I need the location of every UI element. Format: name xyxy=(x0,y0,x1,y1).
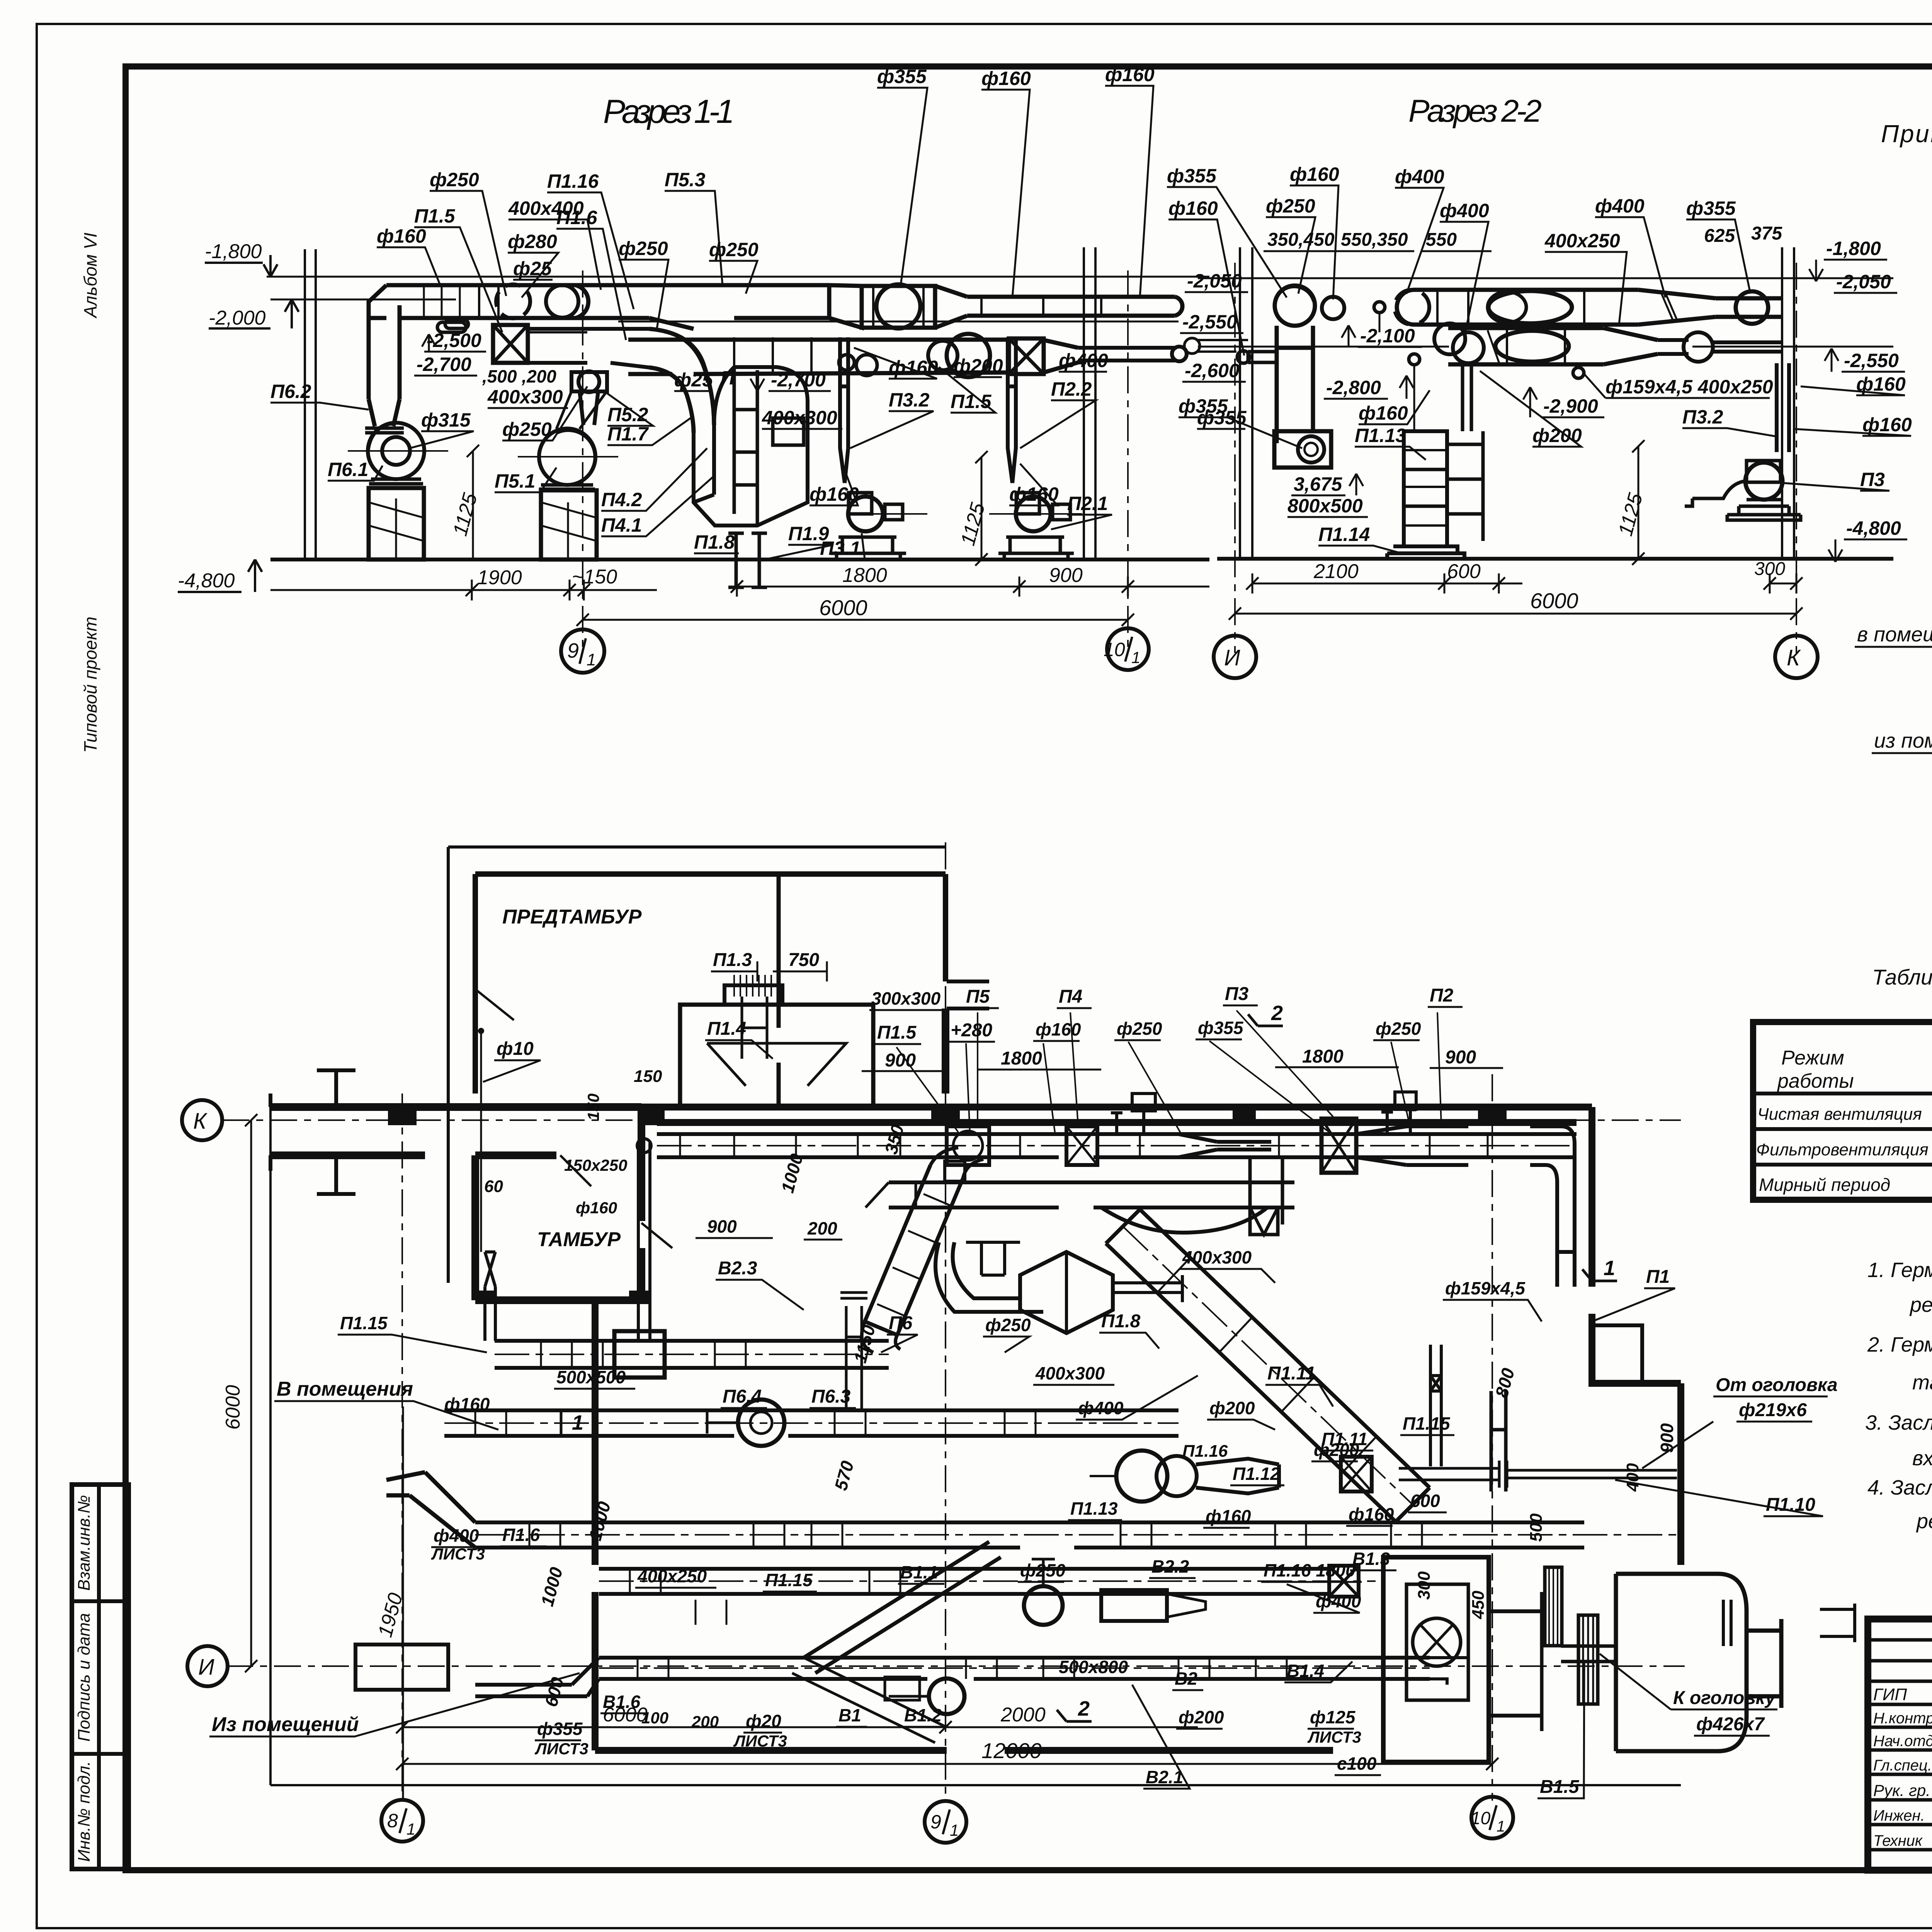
right box inner hatch xyxy=(1413,1618,1461,1666)
damper X-box 2 xyxy=(1009,338,1044,374)
svg-text:ф200: ф200 xyxy=(1209,1398,1255,1418)
svg-text:400x300: 400x300 xyxy=(762,407,837,429)
damper X-box xyxy=(493,325,528,363)
svg-text:В2.3: В2.3 xyxy=(718,1258,757,1279)
svg-text:К оголовку: К оголовку xyxy=(1673,1688,1776,1708)
label f400 t3 xyxy=(1595,195,1665,298)
svg-text:3,675: 3,675 xyxy=(1294,473,1342,495)
svg-text:ф250: ф250 xyxy=(1020,1560,1066,1580)
svg-text:П6.2: П6.2 xyxy=(270,381,311,402)
svg-text:регулировки объема подаваемого: регулировки объема подаваемого воздуха xyxy=(1916,1510,1932,1533)
svg-text:ЛИСТ3: ЛИСТ3 xyxy=(534,1740,588,1758)
svg-text:Н.контр.: Н.контр. xyxy=(1873,1710,1932,1727)
svg-text:-2,550: -2,550 xyxy=(1844,350,1899,371)
svg-text:150: 150 xyxy=(584,1094,602,1121)
vertical link run1-run2 xyxy=(1250,1157,1282,1225)
svg-text:Взам.инв.№: Взам.инв.№ xyxy=(75,1495,94,1591)
svg-text:Инв.№ подл.: Инв.№ подл. xyxy=(75,1761,94,1862)
svg-text:600: 600 xyxy=(1447,560,1481,583)
svg-text:П1.16 1800: П1.16 1800 xyxy=(1264,1560,1355,1580)
svg-text:П6.4: П6.4 xyxy=(723,1386,762,1407)
fan P2.1 unit xyxy=(998,493,1074,560)
svg-text:В2.2: В2.2 xyxy=(1151,1556,1189,1577)
label f159x45 xyxy=(1443,1278,1542,1321)
axis line 10/1 xyxy=(1492,1074,1493,1801)
label P1.10 r xyxy=(1615,1480,1823,1516)
svg-text:И: И xyxy=(198,1655,214,1680)
level line -2,000 xyxy=(270,299,456,301)
svg-text:П5.1: П5.1 xyxy=(495,470,535,492)
run 5 long xyxy=(475,1522,1584,1548)
row1 cone right xyxy=(1638,290,1716,325)
label P1.6 xyxy=(556,207,626,340)
svg-text:ф10: ф10 xyxy=(497,1039,534,1059)
svg-text:ф355: ф355 xyxy=(1686,197,1736,219)
svg-text:6000: 6000 xyxy=(819,595,867,620)
diagonal B1.1 lower xyxy=(792,1658,947,1743)
building outer face bottom xyxy=(270,1784,1681,1786)
label 400x300 right xyxy=(762,407,842,429)
label P6.1 xyxy=(328,459,383,481)
wall pilasters xyxy=(388,1105,1507,1302)
svg-text:П2.2: П2.2 xyxy=(1051,378,1092,400)
label 900 200 xyxy=(707,1216,837,1238)
svg-text:,500 ,200: ,500 ,200 xyxy=(482,366,556,386)
svg-text:Типовой проект: Типовой проект xyxy=(80,617,100,753)
svg-text:В помещения: В помещения xyxy=(277,1378,413,1400)
svg-text:ф355: ф355 xyxy=(1167,165,1217,187)
label f355 bl xyxy=(1179,395,1302,448)
svg-text:В1.5: В1.5 xyxy=(1540,1777,1580,1797)
label B1.1 xyxy=(898,1562,944,1584)
signature rows xyxy=(1868,1640,1932,1850)
P1.15 vertical with X xyxy=(1430,1345,1441,1466)
svg-text:ф400: ф400 xyxy=(1059,350,1108,371)
svg-text:1800: 1800 xyxy=(1302,1046,1344,1067)
label -2,700 xyxy=(414,354,477,376)
svg-text:1: 1 xyxy=(406,1820,415,1838)
label f400 r xyxy=(1059,350,1108,372)
svg-text:400x250: 400x250 xyxy=(637,1566,707,1586)
right big circle xyxy=(1736,291,1768,324)
level -2,100 xyxy=(1342,325,1422,347)
dim 550,350 xyxy=(1341,230,1414,251)
P1.4 box xyxy=(680,1005,873,1107)
small valve circle xyxy=(1374,302,1385,313)
svg-text:ф200: ф200 xyxy=(1314,1440,1359,1460)
predtambur inner door arcs xyxy=(475,989,672,1248)
label P6.3 xyxy=(810,1386,856,1408)
filter P1.13 xyxy=(1404,431,1447,546)
label f159x4,5 400x250 xyxy=(1584,374,1773,398)
labels top row xyxy=(871,984,1454,1009)
label f355 tl xyxy=(1167,165,1287,298)
svg-text:П1.4: П1.4 xyxy=(707,1019,746,1039)
row2 ellipse xyxy=(1495,331,1569,362)
row1 left cap xyxy=(1397,290,1414,325)
label P3 r xyxy=(1783,469,1889,491)
svg-text:-2,050: -2,050 xyxy=(1187,270,1242,292)
svg-text:ф250: ф250 xyxy=(502,418,552,440)
dim line 1900/150 xyxy=(270,580,657,600)
grille symbol xyxy=(1545,1567,1562,1646)
row1 ellipse xyxy=(1488,291,1572,323)
label P6 xyxy=(881,1313,918,1352)
axis circle 10/1 xyxy=(1104,628,1149,670)
svg-text:900: 900 xyxy=(707,1216,737,1236)
label P1.16 1800 xyxy=(1261,1560,1362,1582)
dim 1950 vertical xyxy=(402,1406,404,1801)
label -2,500 xyxy=(422,330,486,352)
svg-text:В1.3: В1.3 xyxy=(1352,1549,1390,1569)
svg-text:П1.14: П1.14 xyxy=(1318,524,1370,545)
building outer face left xyxy=(269,1107,272,1785)
thick duct elbow bottom right xyxy=(1430,1658,1468,1685)
label f160 r2 xyxy=(1793,414,1912,436)
dim line 6000 xyxy=(577,614,1134,626)
label f355 list3 xyxy=(534,1719,588,1758)
lower duct fan xyxy=(947,334,990,377)
P1.3 grille xyxy=(724,975,782,1059)
small inlet left xyxy=(1248,352,1277,362)
level -2,550 r xyxy=(1825,349,1905,372)
label f25 xyxy=(513,258,553,280)
level -2,550 l xyxy=(1180,311,1243,333)
svg-text:1: 1 xyxy=(1497,1818,1505,1835)
label P2.2 xyxy=(1020,378,1096,448)
duct P6 top run xyxy=(369,285,576,318)
axis circle 9/1 xyxy=(925,1801,966,1843)
svg-text:П5.3: П5.3 xyxy=(665,169,706,190)
label P1.7 xyxy=(607,417,692,445)
fan P5.1 volute xyxy=(539,429,595,485)
predtambur door top xyxy=(779,873,823,875)
hall top wall xyxy=(641,1107,1592,1122)
filter side stripes xyxy=(1404,450,1447,526)
svg-text:ф25: ф25 xyxy=(513,258,552,279)
axis circle 9/1 xyxy=(561,629,604,673)
label f250 b xyxy=(619,238,668,328)
svg-text:П6.1: П6.1 xyxy=(328,459,368,480)
label f20 list3 xyxy=(733,1711,787,1750)
label f250 xyxy=(430,169,506,296)
inner wall verticals xyxy=(777,874,781,1107)
svg-text:Инжен.: Инжен. xyxy=(1873,1807,1925,1824)
P6 stem xyxy=(840,1293,867,1410)
svg-text:ф250: ф250 xyxy=(430,169,479,190)
base P1.14 xyxy=(1387,546,1464,559)
label P6.4 xyxy=(721,1386,767,1408)
vertical feed to filter xyxy=(1463,364,1471,431)
svg-text:400x300: 400x300 xyxy=(487,386,563,408)
svg-text:Принципиальная схема работы: Принципиальная схема работы вентиляции у… xyxy=(1881,120,1932,148)
X damper B1.3 xyxy=(1329,1566,1359,1597)
fan f280 dashed xyxy=(496,284,530,318)
label f160 e xyxy=(1203,1506,1251,1528)
svg-text:900: 900 xyxy=(1445,1047,1476,1068)
predtambur walls xyxy=(475,874,946,1094)
svg-text:Нач.отд.: Нач.отд. xyxy=(1873,1733,1932,1750)
tambur walls xyxy=(475,1107,649,1300)
svg-text:400: 400 xyxy=(1623,1463,1642,1492)
svg-text:100: 100 xyxy=(641,1709,668,1727)
svg-text:ф400: ф400 xyxy=(1395,166,1444,187)
flag -2800 circle xyxy=(1409,354,1420,365)
svg-text:ф355: ф355 xyxy=(877,66,927,87)
svg-text:3. Заслонка N 13 прикрываетс: 3. Заслонка N 13 прикрывается при вентил… xyxy=(1865,1411,1932,1434)
label f250 t xyxy=(1266,195,1315,294)
cone 2 xyxy=(1044,340,1078,372)
extra seams row1 xyxy=(1437,290,1584,325)
fan f400 xyxy=(876,284,920,328)
label f160 m1 xyxy=(810,464,859,505)
extra seams lower duct xyxy=(734,337,811,372)
P1.8 unit plan xyxy=(935,1242,1182,1333)
svg-text:ф160: ф160 xyxy=(1009,483,1059,505)
text v pomeshenia xyxy=(1855,562,1932,647)
svg-text:ф160: ф160 xyxy=(1036,1019,1081,1039)
svg-text:П3.2: П3.2 xyxy=(889,389,930,411)
label B1.3 xyxy=(1350,1549,1396,1570)
level mark -4,800 xyxy=(178,560,262,592)
dim 1125 xyxy=(1632,440,1645,565)
svg-text:ф400: ф400 xyxy=(1595,195,1645,217)
label f400 list3 xyxy=(431,1526,485,1563)
svg-text:П4.1: П4.1 xyxy=(601,514,642,536)
svg-text:П6: П6 xyxy=(889,1313,913,1333)
floor line xyxy=(270,558,1209,561)
svg-text:375: 375 xyxy=(1751,223,1782,244)
big pipe right xyxy=(1616,1574,1781,1751)
label P1.16 xyxy=(1182,1442,1228,1461)
P5.2 fan box xyxy=(571,371,607,425)
svg-text:200: 200 xyxy=(807,1218,837,1238)
svg-text:П1.7: П1.7 xyxy=(607,423,649,445)
level -1,800 r xyxy=(1809,238,1887,281)
svg-text:ф200: ф200 xyxy=(954,355,1003,377)
label ot ogolovka plan xyxy=(1642,1375,1838,1468)
fan P5.2 cone xyxy=(556,391,607,429)
small details top right corner of hall xyxy=(1592,1325,1642,1383)
svg-text:-2,050: -2,050 xyxy=(1836,271,1891,293)
big X unit xyxy=(1321,1119,1356,1173)
level line top xyxy=(1198,277,1893,279)
svg-text:Подпись и дата: Подпись и дата xyxy=(75,1613,94,1742)
svg-text:П2.1: П2.1 xyxy=(1067,493,1108,514)
label P1.5 r xyxy=(939,367,995,413)
corridor stub marks xyxy=(317,1070,355,1194)
label 500x800 xyxy=(1056,1657,1138,1679)
fan P3 unit xyxy=(1685,461,1801,520)
svg-text:ф250: ф250 xyxy=(1117,1019,1162,1039)
label 600 r xyxy=(1408,1491,1447,1512)
axis line K xyxy=(1796,263,1797,653)
pedestal P6.1 xyxy=(369,488,424,560)
wall K xyxy=(1782,247,1794,559)
svg-text:625: 625 xyxy=(1704,226,1735,246)
hall right walls xyxy=(1592,1107,1681,1565)
dim 550 xyxy=(1422,230,1492,251)
level line -1,800 xyxy=(267,276,1209,278)
label P1.13 xyxy=(1355,425,1426,460)
run 7 bottom xyxy=(599,1658,1430,1679)
svg-text:ф400: ф400 xyxy=(434,1526,479,1546)
label f400 t xyxy=(1395,166,1444,294)
svg-text:ф160: ф160 xyxy=(377,225,426,247)
svg-text:400x250: 400x250 xyxy=(1544,230,1620,252)
label B1 xyxy=(836,1705,867,1727)
label f160 top3 xyxy=(1105,64,1155,298)
svg-text:Режим: Режим xyxy=(1781,1047,1844,1069)
fan B1.2 area xyxy=(885,1677,964,1714)
left small dims xyxy=(564,1094,628,1217)
left inlet small pipe xyxy=(1198,340,1248,352)
svg-text:8: 8 xyxy=(387,1810,398,1832)
label f160 m xyxy=(1359,390,1430,424)
V damper on run2 xyxy=(1250,1207,1278,1235)
damper circle f160 xyxy=(1322,297,1344,319)
svg-text:ф355: ф355 xyxy=(1179,395,1228,417)
thin tube xyxy=(1078,348,1177,361)
svg-text:10: 10 xyxy=(1104,639,1125,660)
label P1.16 xyxy=(547,170,634,309)
svg-text:300: 300 xyxy=(1415,1571,1434,1600)
left elbow of run5 xyxy=(386,1472,475,1548)
label f160 m2 xyxy=(1009,464,1059,505)
tambur door gap swing xyxy=(560,1155,591,1186)
svg-text:ф160: ф160 xyxy=(1359,402,1408,424)
svg-text:1. Гермоклапан N 5 открыт пр: 1. Гермоклапан N 5 открыт при завале воз… xyxy=(1867,1259,1932,1282)
svg-text:1800: 1800 xyxy=(842,564,887,587)
left vertical duct xyxy=(1277,326,1313,443)
label 100 200 xyxy=(641,1709,719,1731)
svg-text:9: 9 xyxy=(930,1811,941,1833)
label f160 f xyxy=(1346,1504,1394,1526)
svg-text:Из помещений: Из помещений xyxy=(212,1713,359,1736)
svg-text:П1.13: П1.13 xyxy=(1070,1498,1118,1519)
svg-text:500: 500 xyxy=(1527,1513,1546,1542)
svg-text:П1.12: П1.12 xyxy=(1233,1464,1280,1484)
label P1.3 750 xyxy=(711,950,827,981)
svg-text:ф25: ф25 xyxy=(674,369,713,391)
svg-text:П1.13: П1.13 xyxy=(1355,425,1406,446)
label f200 c xyxy=(1207,1398,1275,1430)
label B1.5 xyxy=(1537,1662,1584,1798)
svg-text:10: 10 xyxy=(1471,1808,1491,1828)
svg-text:550: 550 xyxy=(1426,230,1457,250)
svg-text:ф280: ф280 xyxy=(508,231,557,252)
fan P3.1 unit xyxy=(831,493,906,560)
svg-text:П1.16: П1.16 xyxy=(547,170,599,192)
axis line 9/1 xyxy=(582,270,583,650)
extra seams row2 xyxy=(1507,328,1565,364)
svg-text:В1: В1 xyxy=(838,1705,861,1725)
svg-text:К: К xyxy=(1787,645,1801,670)
label B2.3 xyxy=(716,1258,804,1310)
cone narrowing xyxy=(935,286,967,328)
svg-text:150x250: 150x250 xyxy=(564,1156,628,1174)
big diagonal duct xyxy=(1106,1209,1430,1522)
label 400x300 b xyxy=(1033,1363,1114,1385)
extra seams upper duct xyxy=(479,285,1101,328)
long level line 2 xyxy=(618,321,1179,323)
flag -2900 circle xyxy=(1573,367,1584,378)
label f400 i xyxy=(1287,1584,1361,1613)
pipe stub right of muffler xyxy=(1820,1604,1855,1642)
svg-text:6000: 6000 xyxy=(222,1385,244,1430)
label B2 xyxy=(1172,1668,1203,1690)
label P1.15 r xyxy=(1400,1413,1454,1435)
svg-text:ф355: ф355 xyxy=(1198,1018,1244,1038)
svg-text:ф250: ф250 xyxy=(985,1315,1031,1335)
svg-text:В1.2: В1.2 xyxy=(904,1705,942,1725)
label f250 g xyxy=(1018,1560,1066,1582)
axis circle K xyxy=(1775,636,1818,678)
axis line I xyxy=(1234,263,1236,653)
wide box with fan xyxy=(862,286,935,328)
fans pair center xyxy=(1090,1451,1197,1502)
P1.8 filter unit outline xyxy=(694,367,808,526)
label f160 left xyxy=(444,1394,490,1414)
wall I xyxy=(1240,247,1252,559)
label P6.2 xyxy=(270,381,369,410)
level line 2 segments xyxy=(1198,346,1893,348)
table grid xyxy=(1753,1022,1932,1200)
small circles xyxy=(839,355,854,370)
title block outer xyxy=(1868,1619,1932,1870)
label P1.15 left xyxy=(338,1313,487,1352)
svg-text:П1.8: П1.8 xyxy=(1101,1311,1141,1332)
right equipment big box xyxy=(1383,1557,1489,1762)
svg-text:2000: 2000 xyxy=(1000,1704,1046,1726)
label f200 xyxy=(1480,371,1582,447)
duct seams xyxy=(424,285,460,318)
duct row1 xyxy=(1414,290,1638,325)
label P1 r xyxy=(1592,1267,1675,1321)
label P1.4 xyxy=(705,1019,773,1059)
vertical drop P2.2 xyxy=(1008,337,1016,483)
label f125 list3 xyxy=(1307,1707,1361,1746)
fan P6.1 volute xyxy=(368,423,424,479)
svg-text:От оголовка: От оголовка xyxy=(1716,1375,1838,1395)
svg-text:-4,800: -4,800 xyxy=(1846,517,1901,539)
fan B1 center xyxy=(1024,1559,1063,1625)
svg-text:550,350: 550,350 xyxy=(1341,230,1408,250)
axis circle 10/1 xyxy=(1471,1797,1513,1838)
svg-text:ф159х4,5 400х250: ф159х4,5 400х250 xyxy=(1605,376,1773,398)
svg-text:1800: 1800 xyxy=(1001,1048,1042,1069)
pedestal P5.1 xyxy=(541,490,597,560)
dim 350,450 xyxy=(1264,230,1341,251)
svg-text:Техник: Техник xyxy=(1873,1832,1923,1849)
level 3,675 xyxy=(1291,473,1363,495)
svg-text:300x300: 300x300 xyxy=(871,988,940,1009)
run 3 with P1.15 xyxy=(495,1341,889,1368)
fan f250 left xyxy=(1275,286,1315,326)
svg-text:1: 1 xyxy=(950,1821,959,1839)
iz pomesheniy xyxy=(1872,680,1932,753)
axis circle I xyxy=(1214,636,1256,678)
axis I horizontal xyxy=(226,1665,1685,1667)
svg-text:1: 1 xyxy=(587,650,596,669)
section mark 1 xyxy=(1582,1257,1617,1281)
label P4.1 xyxy=(601,475,715,536)
label P1.12 xyxy=(1230,1464,1284,1485)
dim row 900 1800 1800 900 xyxy=(885,1046,1476,1071)
svg-text:В1.4: В1.4 xyxy=(1287,1661,1324,1681)
label P4.2 xyxy=(601,448,707,511)
label 400x250 xyxy=(1544,230,1627,325)
